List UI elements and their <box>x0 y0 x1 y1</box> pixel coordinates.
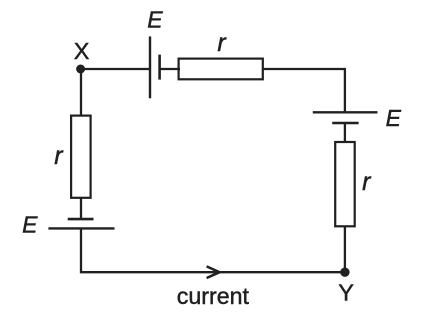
svg-text:Y: Y <box>338 280 354 306</box>
battery E top: short plate <box>158 55 161 80</box>
wire resistor to bottom-left battery <box>80 198 82 219</box>
svg-text:E: E <box>22 212 38 238</box>
svg-text:E: E <box>386 105 402 131</box>
battery E left: long plate <box>48 227 114 229</box>
wire resistor to top-right corner <box>262 68 345 70</box>
svg-text:current: current <box>177 283 250 309</box>
wire X to top battery <box>81 68 149 70</box>
wire X down to resistor r left <box>80 69 82 116</box>
svg-text:X: X <box>74 38 90 64</box>
wire battery to bottom wire <box>80 228 82 273</box>
wire resistor to node Y <box>344 226 346 272</box>
svg-text:E: E <box>147 7 163 33</box>
battery E left: short plate <box>68 218 94 221</box>
resistor r left <box>71 116 91 198</box>
wire battery to resistor r top <box>160 68 180 70</box>
bottom wire Y to left <box>81 271 345 273</box>
node X <box>76 65 85 74</box>
battery E right: short plate <box>332 122 358 125</box>
svg-text:r: r <box>362 168 372 196</box>
wire top-right corner down <box>344 68 346 112</box>
resistor r top <box>179 59 263 80</box>
wire battery to resistor r right <box>344 123 346 143</box>
svg-text:r: r <box>54 142 64 170</box>
svg-text:r: r <box>217 29 227 57</box>
node Y <box>340 268 349 277</box>
battery E right: long plate <box>313 111 378 113</box>
resistor r right <box>335 142 355 226</box>
current arrow <box>207 266 220 278</box>
battery E top: long plate <box>149 36 151 98</box>
